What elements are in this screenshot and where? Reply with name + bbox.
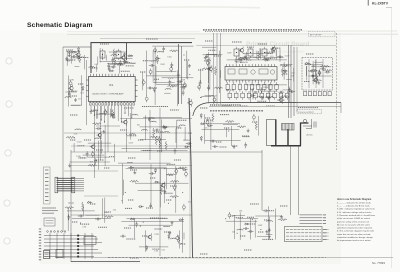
junction — [155, 51, 156, 52]
svg-text:IC1: IC1 — [109, 83, 114, 87]
wire — [266, 234, 272, 236]
label text row — [69, 202, 74, 204]
resistor R5 — [114, 57, 116, 66]
junction — [80, 223, 81, 224]
label text row — [257, 100, 266, 102]
wire — [64, 132, 192, 134]
svg-text:0.047: 0.047 — [285, 56, 290, 58]
label text row — [164, 231, 171, 233]
svg-text:47u: 47u — [78, 99, 81, 101]
coil L21 — [237, 228, 244, 231]
wire — [144, 230, 146, 252]
wire — [135, 182, 188, 184]
wire — [280, 63, 293, 65]
wire — [73, 143, 75, 152]
wire — [82, 206, 84, 215]
page right edge shadow — [391, 8, 393, 268]
wire — [249, 218, 251, 240]
wire — [233, 214, 245, 216]
junction — [185, 85, 186, 86]
wire — [133, 218, 135, 238]
label text row — [104, 167, 110, 169]
junction — [199, 87, 200, 88]
label text row — [150, 177, 156, 179]
wire — [71, 104, 81, 106]
ground — [247, 129, 250, 132]
wire — [275, 51, 277, 60]
junction — [260, 229, 261, 230]
coil L9 — [165, 87, 172, 90]
junction — [143, 222, 144, 223]
capacitor C15 — [107, 63, 110, 69]
wire — [220, 33, 222, 104]
circuit cluster: video amp column — [142, 46, 193, 107]
resistor R43 — [82, 202, 84, 211]
resistor R30 — [155, 136, 157, 145]
transistor Q1 — [314, 78, 318, 82]
wire — [315, 70, 317, 77]
junction — [181, 243, 182, 244]
electrolytic capacitor C1 — [318, 71, 321, 74]
svg-text:47u: 47u — [205, 127, 208, 129]
capacitor C47 — [154, 129, 160, 132]
capacitor C39 — [289, 90, 295, 93]
wire — [96, 125, 120, 127]
diode D15 — [200, 123, 205, 125]
wire — [90, 43, 92, 73]
diode D10 — [109, 70, 114, 72]
wire — [192, 151, 262, 153]
yoke caption dashed box — [297, 110, 322, 114]
label text row — [306, 53, 314, 55]
wire — [97, 56, 99, 64]
capacitor C24 — [182, 90, 185, 96]
label text row — [124, 107, 134, 109]
wire — [271, 145, 301, 147]
ground — [233, 145, 236, 148]
label text row — [270, 57, 276, 59]
capacitor C21 — [149, 64, 155, 67]
bottom chassis rail (thin continuation) — [55, 256, 393, 259]
circuit cluster: sound IF row — [227, 45, 290, 63]
svg-text:4. Δ : indicates voltage valu: 4. Δ : indicates voltage value checks. — [337, 211, 372, 214]
wire — [181, 46, 183, 104]
resistor array row A — [226, 82, 278, 92]
diode D27 — [179, 219, 184, 221]
wire — [121, 221, 184, 223]
label text row — [112, 63, 119, 65]
ground — [164, 126, 167, 129]
wire — [130, 166, 166, 168]
usage notes text block — [337, 198, 376, 242]
wire — [210, 104, 241, 106]
svg-text:Printed Circuit Board: Printed Circuit Board — [246, 41, 309, 48]
label text row — [250, 203, 259, 205]
wire — [159, 169, 161, 208]
scan smudge top center — [150, 6, 260, 9]
label text row — [84, 139, 91, 141]
resistor R13 — [214, 87, 223, 89]
wire — [146, 75, 181, 77]
svg-text:100: 100 — [137, 124, 140, 126]
resistor R27 — [150, 136, 159, 138]
svg-text:0.047: 0.047 — [77, 142, 82, 144]
label text row — [78, 83, 84, 85]
wire — [66, 50, 80, 52]
resistor R4 — [79, 54, 81, 63]
sub-board dashed outline (tuner keys) — [302, 58, 333, 91]
label text row — [125, 207, 132, 209]
svg-text:KL-2X6TV: KL-2X6TV — [372, 2, 389, 6]
label text row — [157, 150, 163, 152]
wire — [85, 60, 87, 125]
wire — [126, 168, 181, 170]
output terminal rows (upper) — [300, 215, 327, 224]
wire — [108, 257, 326, 259]
ground — [133, 171, 136, 174]
wire — [268, 206, 270, 239]
label text row — [140, 71, 146, 73]
resistor R35 — [170, 196, 179, 198]
capacitor C53 — [149, 203, 152, 209]
diode D2 — [72, 51, 77, 53]
label text row — [127, 135, 136, 137]
diode D8 — [82, 86, 84, 91]
wire — [94, 106, 96, 178]
svg-text:How to use Schematic Diagram.: How to use Schematic Diagram. — [337, 198, 372, 201]
scan artifact: faint fold line 2 — [302, 30, 397, 32]
svg-text:No. 77893: No. 77893 — [372, 261, 385, 265]
wire — [70, 161, 110, 163]
wire — [119, 65, 121, 74]
svg-text:0.01: 0.01 — [291, 72, 295, 74]
label text row — [126, 55, 133, 57]
wire — [72, 217, 111, 219]
label text row — [121, 70, 130, 72]
resistor R37 — [170, 180, 179, 182]
label text row — [109, 66, 116, 68]
wire — [234, 218, 236, 239]
svg-text:LA1365 VIDEO / CHROMA AMP: LA1365 VIDEO / CHROMA AMP — [92, 93, 124, 96]
transistor Q2 — [77, 53, 81, 57]
label text row — [96, 149, 103, 151]
wire — [220, 70, 222, 78]
svg-text:220: 220 — [113, 210, 116, 212]
wire — [152, 51, 154, 82]
diode D22 — [182, 169, 187, 171]
resistor R25 — [237, 126, 246, 128]
wire — [226, 220, 257, 222]
wire — [96, 65, 98, 72]
wire — [71, 104, 82, 106]
label text row — [216, 141, 222, 143]
resistor R8 — [112, 109, 114, 118]
diode D1 — [305, 62, 310, 64]
wire — [175, 166, 177, 213]
wire — [120, 118, 192, 120]
transistor Q10 — [124, 120, 128, 124]
label text row — [155, 228, 163, 230]
IF transformer can T4 — [234, 47, 239, 58]
coil L17 — [148, 117, 155, 120]
electrolytic capacitor C26 — [154, 49, 157, 52]
junction — [189, 74, 190, 75]
wire — [274, 209, 276, 240]
wire — [223, 123, 238, 125]
wire — [149, 110, 151, 160]
label text row — [150, 87, 157, 89]
wire — [287, 129, 289, 146]
wire — [275, 120, 277, 146]
IC2 IF amplifier IC (AN5435) — [225, 61, 277, 82]
wire — [104, 198, 106, 223]
svg-text:1/2W: 1/2W — [209, 95, 214, 97]
circuit cluster: tuner key circuits — [304, 60, 332, 84]
wire — [213, 33, 215, 104]
resistor R19 — [280, 95, 289, 97]
punch hole — [4, 238, 10, 244]
wire — [66, 51, 68, 66]
wire — [139, 246, 168, 248]
svg-text:0.01: 0.01 — [161, 250, 165, 252]
label text row — [176, 127, 182, 129]
IF transformer can T6 — [262, 47, 267, 58]
resistor R15 — [241, 58, 250, 60]
wire — [189, 112, 191, 258]
wire — [301, 123, 309, 146]
svg-text:DY H-V OUTPUT: DY H-V OUTPUT — [298, 112, 314, 114]
flyback transformer T1 winding — [282, 124, 295, 131]
svg-text:C623: C623 — [128, 143, 133, 145]
label text row — [130, 257, 139, 259]
wire — [308, 75, 332, 77]
electrolytic capacitor C55 — [182, 206, 185, 209]
diode D21 — [155, 181, 160, 183]
wire — [336, 33, 338, 150]
wire — [118, 162, 170, 164]
wire — [71, 151, 192, 153]
wire — [312, 61, 314, 84]
label text row — [77, 145, 85, 147]
wire — [290, 146, 292, 215]
junction — [164, 193, 165, 194]
label text row — [244, 249, 252, 251]
label text row — [160, 257, 168, 259]
circuit cluster: audio output stage — [118, 163, 191, 213]
label text row — [205, 40, 213, 42]
label text row — [124, 227, 131, 229]
ground — [162, 125, 165, 128]
wire — [107, 106, 109, 152]
note text lines under strip — [42, 208, 58, 226]
transistor Q8 — [272, 47, 276, 51]
label text row — [246, 59, 252, 61]
ground — [188, 64, 191, 67]
resistor R12 — [202, 68, 211, 70]
capacitor C8 — [66, 59, 72, 62]
label text row — [247, 216, 254, 218]
wire — [202, 129, 240, 131]
wire — [99, 48, 101, 63]
capacitor C5 — [312, 73, 315, 79]
label text row — [284, 65, 292, 67]
label text row — [208, 49, 216, 51]
coil L2 — [310, 69, 317, 72]
label text row — [258, 43, 267, 45]
wire — [206, 53, 217, 55]
diode D19 — [185, 146, 190, 148]
wire — [256, 51, 258, 59]
diode D5 — [124, 60, 126, 65]
coil L5 — [99, 112, 106, 115]
transistor Q7 — [240, 49, 244, 53]
electrolytic capacitor C61 — [228, 214, 231, 217]
svg-text:C997: C997 — [131, 63, 136, 65]
circuit cluster: below IC1 pins — [90, 109, 115, 119]
label text row — [128, 199, 134, 201]
coil L6 — [88, 66, 95, 69]
label text row — [304, 81, 310, 83]
electrolytic capacitor C20 — [149, 70, 152, 73]
capacitor C41 — [278, 91, 284, 94]
label text row — [262, 238, 273, 240]
ground — [284, 70, 287, 73]
wire — [107, 62, 135, 64]
capacitor C50 — [174, 148, 177, 154]
resistor R41 — [66, 136, 75, 138]
resistor R42 — [88, 164, 97, 166]
label text row — [154, 78, 159, 80]
wire — [246, 52, 248, 59]
PCB outline rounded top edge — [193, 103, 341, 116]
svg-text:1/2W: 1/2W — [154, 234, 159, 236]
wire — [175, 128, 177, 143]
transistor Q9 — [279, 98, 283, 102]
label text row — [80, 223, 90, 225]
wire — [98, 141, 100, 170]
resistor R36 — [130, 180, 139, 182]
resistor R45 — [105, 216, 114, 218]
scan artifact: faint fold line — [67, 33, 398, 36]
ground — [112, 65, 115, 68]
transistor Q12 — [148, 235, 152, 239]
capacitor C25 — [168, 79, 171, 85]
wire — [286, 78, 292, 80]
transistor Q5 — [189, 101, 193, 105]
label text row — [142, 106, 168, 108]
wire — [106, 55, 108, 61]
capacitor C16 — [180, 86, 186, 89]
wire — [257, 236, 271, 238]
diode D26 — [130, 218, 135, 220]
label text row — [184, 59, 190, 61]
label text row — [172, 85, 179, 87]
capacitor C65 — [86, 151, 89, 157]
label text row — [98, 226, 107, 228]
label text row — [96, 159, 104, 161]
model label underline mark — [386, 7, 392, 9]
label text row — [234, 217, 243, 219]
label text row — [230, 215, 236, 217]
label text row — [164, 192, 173, 194]
preset switch row — [304, 92, 332, 96]
label text row — [277, 99, 284, 101]
capacitor C35 — [235, 58, 238, 64]
label text row — [126, 238, 135, 240]
capacitor C3 — [325, 71, 331, 74]
label text row — [168, 77, 174, 79]
wire — [140, 126, 181, 128]
label text row — [90, 67, 98, 69]
diode D18 — [208, 125, 213, 127]
wire — [162, 77, 194, 79]
ground — [108, 67, 111, 70]
capacitor C10 — [119, 60, 122, 66]
diode D17 — [200, 136, 202, 141]
wire — [100, 61, 124, 63]
svg-text:220: 220 — [312, 65, 315, 67]
wire — [288, 45, 290, 118]
wire — [154, 48, 156, 105]
capacitor C68 — [96, 127, 102, 130]
wire — [200, 69, 202, 83]
wire — [226, 128, 228, 138]
label text row — [170, 109, 179, 111]
label text row — [80, 157, 86, 159]
label text row — [90, 110, 95, 112]
wire — [259, 48, 261, 57]
horizontal output parts — [303, 119, 316, 129]
junction — [269, 237, 270, 238]
wire — [70, 150, 72, 262]
svg-text:at the circuit over 1000Ω as c: at the circuit over 1000Ω as critical — [337, 217, 370, 220]
svg-text:Be sure to use parts with the: Be sure to use parts with the same — [337, 223, 371, 226]
wire — [113, 58, 133, 60]
ground — [244, 55, 247, 58]
punch hole — [6, 58, 12, 64]
circuit cluster: right of IC2 — [280, 62, 295, 82]
electrolytic capacitor C30 — [198, 86, 201, 89]
label text row — [91, 109, 99, 111]
diode D11 — [155, 57, 160, 59]
circuit cluster: left low column — [65, 198, 116, 232]
label text row — [174, 159, 181, 161]
resistor R33 — [167, 174, 176, 176]
wire — [141, 150, 188, 152]
resistor R22 — [280, 65, 289, 67]
coil L4 — [65, 96, 72, 99]
label text row — [243, 136, 250, 138]
diode D30 — [87, 201, 92, 203]
wire — [67, 208, 69, 231]
label text row — [100, 43, 109, 45]
punch hole — [5, 150, 11, 156]
wire — [257, 116, 259, 136]
wire — [306, 66, 308, 80]
wire — [293, 68, 295, 82]
wire — [88, 142, 112, 144]
label text row — [146, 38, 158, 40]
capacitor C28 — [177, 80, 183, 83]
electrolytic capacitor C52 — [175, 170, 178, 173]
capacitor C64 — [263, 209, 269, 212]
wire — [308, 59, 310, 88]
label text row — [226, 89, 233, 91]
label text row — [214, 55, 221, 57]
wire — [238, 48, 240, 62]
wire — [100, 106, 102, 160]
label text row — [220, 114, 230, 116]
